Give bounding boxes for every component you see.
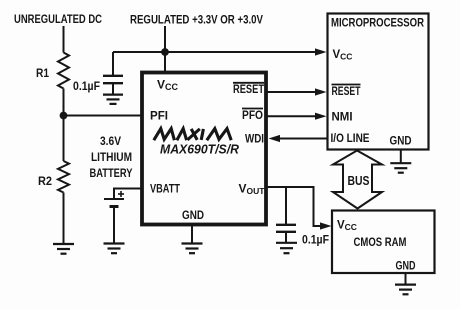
wire unregulated DC vertical to R1	[63, 26, 65, 53]
ground below battery	[104, 244, 125, 254]
wire cap C2 to ground	[285, 232, 287, 243]
wire battery to ground	[113, 207, 115, 244]
ground below R2	[53, 244, 74, 254]
wire CMOS RAM GND to ground	[405, 273, 407, 285]
wire microprocessor GND to ground	[400, 150, 402, 164]
svg-text:RESET: RESET	[332, 84, 361, 98]
op-amp U1 MAX690 body	[142, 73, 266, 225]
wire U1 GND to ground	[191, 225, 193, 244]
wire R2 to ground	[63, 193, 65, 245]
svg-text:VBATT: VBATT	[150, 182, 181, 196]
microprocessor box	[328, 14, 429, 150]
svg-text:LITHIUM: LITHIUM	[91, 150, 132, 164]
svg-text:MICROPROCESSOR: MICROPROCESSOR	[331, 16, 424, 30]
svg-text:UNREGULATED DC: UNREGULATED DC	[14, 12, 102, 26]
svg-text:PFI: PFI	[150, 109, 168, 123]
wire junction down to R2	[63, 116, 65, 162]
BUS double arrow	[333, 151, 382, 209]
wire R1 to junction	[63, 89, 65, 116]
arrow into microprocessor NMI	[315, 113, 327, 120]
ground below C2	[276, 243, 297, 253]
wire PFO to NMI	[266, 115, 317, 117]
arrow into microprocessor VCC	[315, 48, 327, 55]
arrow into CMOS RAM VCC	[320, 222, 332, 229]
ground below U1	[182, 244, 203, 254]
wire junction to PFI pin	[64, 115, 143, 117]
svg-text:I/O LINE: I/O LINE	[331, 133, 370, 145]
arrow into microprocessor RESET	[315, 88, 327, 95]
arrow into U1 WDI	[269, 135, 281, 142]
ground below microprocessor	[390, 163, 411, 173]
battery B1 plus sign	[118, 191, 124, 197]
svg-text:MAX690T/S/R: MAX690T/S/R	[160, 143, 239, 157]
svg-text:PFO: PFO	[242, 108, 263, 122]
ground below C1	[103, 95, 123, 104]
node junction dot regulated	[161, 48, 169, 56]
svg-text:NMI: NMI	[332, 110, 353, 124]
node junction dot at PFI divider	[60, 112, 68, 120]
svg-text:RESET: RESET	[233, 82, 265, 96]
svg-text:R2: R2	[38, 174, 52, 188]
wire regulated horizontal to microprocessor VCC	[113, 51, 317, 53]
battery B1 plates	[104, 198, 124, 200]
svg-text:VCC: VCC	[337, 220, 357, 233]
svg-text:GND: GND	[396, 259, 416, 273]
capacitor C2 0.1uF plates	[276, 225, 296, 232]
svg-text:BATTERY: BATTERY	[90, 166, 133, 180]
wire VBATT pin to battery	[114, 189, 142, 200]
wire I/O LINE to WDI	[278, 138, 328, 140]
svg-text:0.1µF: 0.1µF	[302, 235, 329, 247]
svg-text:3.6V: 3.6V	[100, 134, 121, 148]
svg-text:WDI: WDI	[245, 132, 264, 146]
svg-text:REGULATED +3.3V OR +3.0V: REGULATED +3.3V OR +3.0V	[130, 13, 263, 27]
svg-text:VCC: VCC	[333, 49, 353, 62]
svg-text:R1: R1	[36, 66, 49, 80]
wire VOUT to CMOS RAM VCC	[266, 187, 321, 226]
svg-text:CMOS RAM: CMOS RAM	[354, 235, 407, 249]
svg-text:BUS: BUS	[348, 173, 370, 188]
ground below CMOS RAM	[395, 285, 416, 295]
resistor R2	[58, 161, 69, 193]
resistor R1	[58, 53, 69, 89]
svg-text:GND: GND	[390, 134, 412, 148]
wire down to cap C2	[285, 187, 287, 225]
wire RESET to microprocessor	[266, 91, 317, 93]
CMOS RAM box	[332, 211, 435, 274]
MAXIM logo	[154, 129, 231, 141]
svg-text:0.1µF: 0.1µF	[73, 81, 100, 93]
svg-text:GND: GND	[182, 208, 204, 222]
capacitor C1 0.1uF plates	[103, 76, 123, 83]
wire cap C1 to ground	[112, 83, 114, 94]
wire regulated vertical	[164, 26, 166, 72]
wire down to cap C1	[112, 52, 114, 75]
